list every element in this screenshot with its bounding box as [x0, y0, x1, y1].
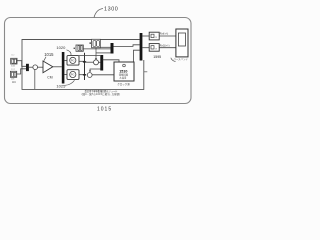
svg-text:RxQ(+/-): RxQ(+/-) — [160, 44, 170, 47]
svg-text:ベースバンド: ベースバンド — [174, 57, 189, 61]
svg-text:クロック源: クロック源 — [117, 82, 130, 86]
svg-text:1300: 1300 — [104, 6, 118, 12]
svg-text:1020: 1020 — [56, 45, 66, 50]
svg-text:PG: PG — [71, 59, 75, 63]
svg-text:1510: 1510 — [119, 70, 127, 74]
svg-text:1015: 1015 — [97, 106, 112, 112]
svg-text:CM: CM — [47, 76, 52, 80]
svg-text:PG: PG — [71, 73, 75, 77]
svg-text:(図4・図7の1015に相当, 点線部): (図4・図7の1015に相当, 点線部) — [82, 92, 121, 96]
svg-text:RxI(+/-): RxI(+/-) — [160, 33, 169, 36]
svg-text:1025: 1025 — [56, 84, 66, 89]
svg-text:1595: 1595 — [153, 55, 161, 59]
svg-text:1015: 1015 — [44, 52, 54, 57]
